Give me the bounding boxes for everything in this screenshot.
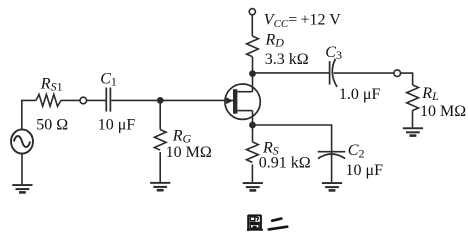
wire node to C1 xyxy=(87,99,106,101)
wire terminal to RL xyxy=(401,73,413,85)
wire RG to ground xyxy=(159,152,161,182)
AC source VS xyxy=(11,129,33,153)
wire AC source to ground xyxy=(21,154,23,185)
caption: figure two (CJK drawn as strokes) xyxy=(247,215,287,231)
wire RL to ground xyxy=(412,111,414,128)
svg-text:0.91 kΩ: 0.91 kΩ xyxy=(259,155,311,172)
resistor RG xyxy=(154,130,166,150)
svg-text:VCC= +12 V: VCC= +12 V xyxy=(264,11,341,30)
svg-text:1.0 μF: 1.0 μF xyxy=(339,86,381,103)
wire vin column xyxy=(22,100,36,129)
resistor RL xyxy=(407,85,419,111)
capacitor C2 xyxy=(318,151,346,153)
glyph tu (picture) xyxy=(247,215,263,231)
node (open terminal) xyxy=(80,97,87,104)
wire source to C2 xyxy=(253,125,332,151)
svg-text:RD: RD xyxy=(265,31,285,49)
wire node A to RG xyxy=(159,100,161,129)
svg-text:10 MΩ: 10 MΩ xyxy=(166,144,212,161)
svg-text:50 Ω: 50 Ω xyxy=(36,117,68,134)
VCC terminal xyxy=(249,9,255,15)
svg-text:C3: C3 xyxy=(325,44,342,62)
svg-text:C1: C1 xyxy=(100,70,117,88)
wire C2 to ground xyxy=(331,151,333,182)
capacitor C1 xyxy=(105,88,107,112)
resistor RS1 xyxy=(36,94,61,106)
wire RD to drain xyxy=(252,57,254,92)
wire C3 to output terminal xyxy=(334,72,394,74)
wire RS1 to node xyxy=(61,99,80,101)
ground (RS) xyxy=(243,182,263,192)
ground (RL) xyxy=(403,127,423,137)
resistor RS xyxy=(246,142,258,163)
ground (C2) xyxy=(322,182,342,192)
transistor Q1 (JFET) xyxy=(225,84,260,119)
capacitor C3 xyxy=(329,61,331,85)
svg-text:10 μF: 10 μF xyxy=(346,162,384,179)
svg-text:C2: C2 xyxy=(348,142,365,160)
svg-text:RG: RG xyxy=(172,127,192,145)
wire C1 to gate xyxy=(111,99,233,101)
ground (source) xyxy=(12,184,32,194)
svg-text:RS1: RS1 xyxy=(40,76,63,94)
output terminal xyxy=(394,70,401,77)
ground (RG) xyxy=(150,182,170,192)
svg-text:3.3 kΩ: 3.3 kΩ xyxy=(265,51,309,68)
wire drain to C3 xyxy=(253,72,330,74)
wire RS to ground xyxy=(251,164,253,182)
wire VCC to RD xyxy=(251,15,253,36)
node A junction dot xyxy=(157,97,164,104)
wire source column xyxy=(252,111,254,142)
svg-text:10 MΩ: 10 MΩ xyxy=(420,103,466,120)
node source junction dot xyxy=(249,122,256,129)
svg-text:10 μF: 10 μF xyxy=(98,117,136,134)
resistor RD xyxy=(247,36,259,57)
glyph er (two) xyxy=(269,219,287,230)
node drain junction dot xyxy=(249,70,256,77)
svg-text:RL: RL xyxy=(421,85,439,103)
